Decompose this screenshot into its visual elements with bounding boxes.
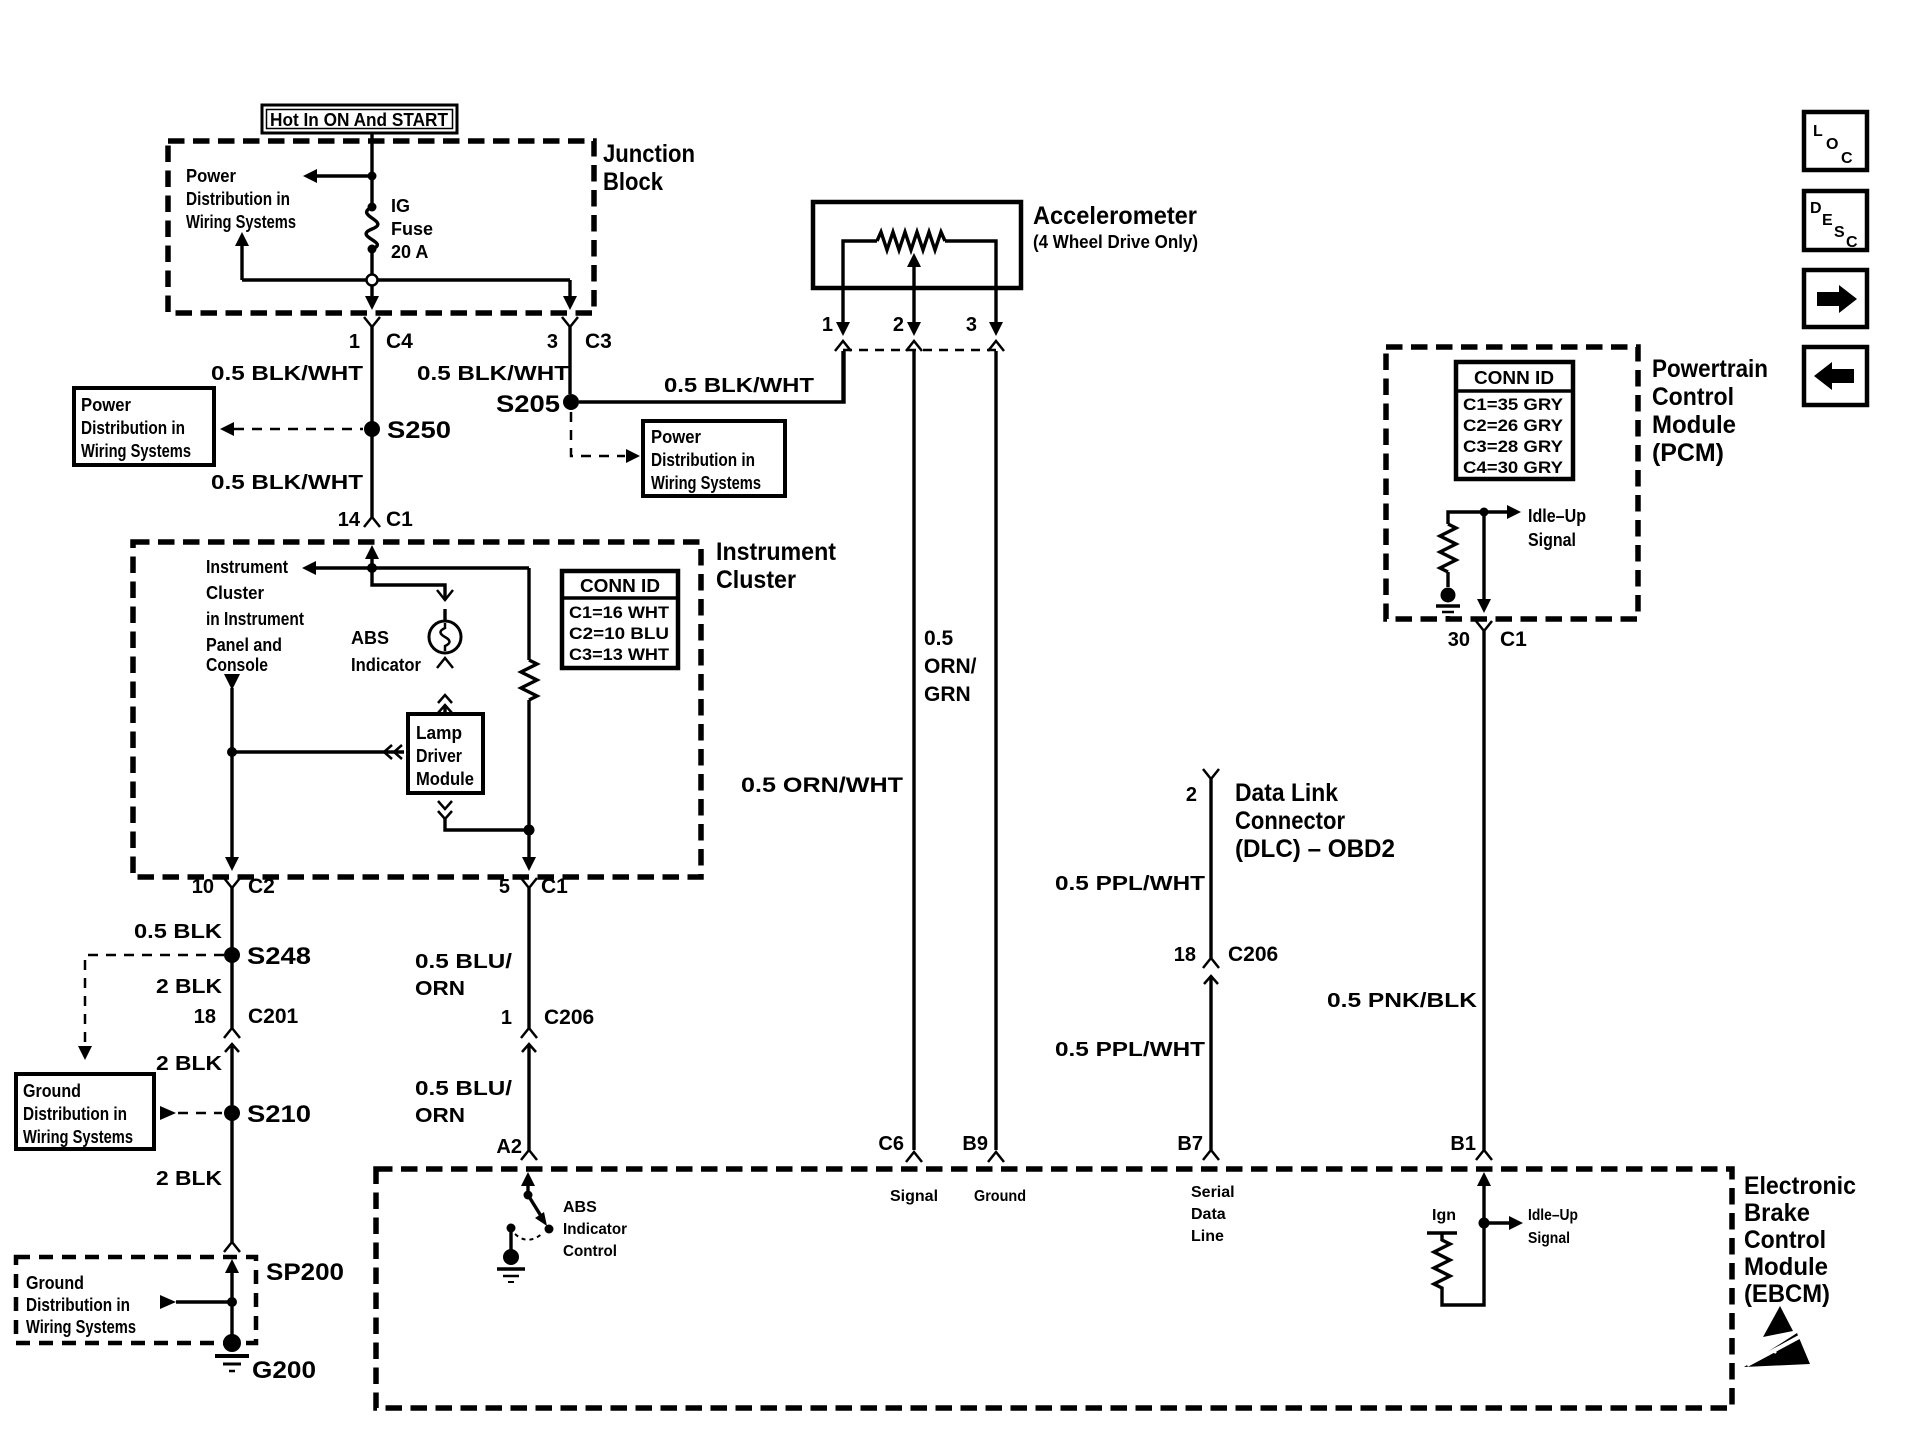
wire ground pin3 down to EBCM B9 <box>741 351 996 1150</box>
splice S205 <box>496 391 579 418</box>
svg-text:(DLC) – OBD2: (DLC) – OBD2 <box>1235 835 1395 863</box>
svg-text:1: 1 <box>349 331 360 353</box>
wire 0.5 PPL/WHT C206 to B7 <box>1055 1039 1205 1061</box>
svg-text:C206: C206 <box>1228 943 1278 966</box>
svg-text:Powertrain: Powertrain <box>1652 355 1768 383</box>
svg-text:ORN: ORN <box>415 978 465 1000</box>
svg-text:Power: Power <box>81 395 131 415</box>
svg-text:14: 14 <box>338 509 361 531</box>
svg-text:Wiring Systems: Wiring Systems <box>23 1127 133 1147</box>
svg-text:Cluster: Cluster <box>206 583 264 603</box>
accelerometer pin wires 1 2 3 <box>822 288 1003 336</box>
svg-text:Brake: Brake <box>1744 1199 1810 1227</box>
svg-text:Console: Console <box>206 655 268 675</box>
connector C201 pin 18 <box>194 1005 299 1105</box>
wire 2 BLK S210 to SP200 <box>156 1120 232 1242</box>
svg-text:Distribution in: Distribution in <box>651 450 755 470</box>
svg-text:Module: Module <box>416 769 474 789</box>
wire entering cluster from C1 <box>365 545 379 568</box>
label serial data line (B7) <box>1191 1184 1235 1245</box>
svg-text:Control: Control <box>1652 383 1734 411</box>
splice S210 <box>224 1101 311 1128</box>
svg-text:ABS: ABS <box>351 628 389 648</box>
junction block dashed box <box>168 140 695 313</box>
svg-text:Indicator: Indicator <box>563 1221 627 1238</box>
svg-text:0.5 BLK: 0.5 BLK <box>134 921 223 943</box>
ground ABS indicator control <box>497 1228 525 1282</box>
connector C2 pin 10 <box>192 875 275 948</box>
svg-text:Line: Line <box>1191 1228 1224 1245</box>
svg-text:30: 30 <box>1448 629 1470 651</box>
svg-text:B7: B7 <box>1177 1133 1203 1155</box>
button back (left arrow) <box>1804 347 1867 405</box>
potentiometer inside accelerometer <box>843 232 996 288</box>
svg-text:Distribution in: Distribution in <box>81 418 185 438</box>
node cluster feed junction <box>302 561 529 575</box>
ground inside PCM <box>1436 588 1460 618</box>
svg-text:Distribution in: Distribution in <box>26 1295 130 1315</box>
svg-text:0.5 ORN/WHT: 0.5 ORN/WHT <box>741 774 903 797</box>
connector C6 label and signal <box>878 1133 938 1205</box>
connector C3 pin 3 <box>547 317 612 353</box>
svg-text:(PCM): (PCM) <box>1652 439 1724 467</box>
svg-text:A2: A2 <box>496 1136 522 1158</box>
powertrain control module dashed box <box>1386 347 1768 619</box>
connector DLC pin 2 <box>1186 769 1219 958</box>
svg-text:C3: C3 <box>585 330 612 353</box>
svg-text:CONN ID: CONN ID <box>580 576 660 596</box>
svg-text:0.5 PPL/WHT: 0.5 PPL/WHT <box>1055 1039 1205 1061</box>
svg-text:0.5 BLK/WHT: 0.5 BLK/WHT <box>211 472 363 494</box>
connector chevrons into lamp driver module (left) <box>384 745 402 759</box>
button DESC <box>1804 191 1867 251</box>
svg-text:Idle–Up: Idle–Up <box>1528 506 1586 526</box>
svg-text:ORN/: ORN/ <box>924 655 977 678</box>
svg-text:Data: Data <box>1191 1206 1226 1223</box>
svg-text:G200: G200 <box>252 1357 316 1384</box>
svg-text:Driver: Driver <box>416 746 462 766</box>
svg-text:Ground: Ground <box>23 1081 81 1101</box>
conn id table (PCM) <box>1456 362 1573 479</box>
ground distribution dashed box <box>16 1257 256 1343</box>
wiper arrow inside accelerometer <box>907 253 921 288</box>
ESD symbol <box>1744 1306 1810 1367</box>
svg-text:0.5 BLU/: 0.5 BLU/ <box>415 951 513 973</box>
svg-text:(4 Wheel Drive Only): (4 Wheel Drive Only) <box>1033 232 1198 252</box>
svg-text:C2=26 GRY: C2=26 GRY <box>1463 416 1564 435</box>
svg-text:0.5 BLK/WHT: 0.5 BLK/WHT <box>417 363 569 385</box>
svg-text:Idle–Up: Idle–Up <box>1528 1207 1578 1224</box>
svg-text:S: S <box>1834 224 1845 241</box>
svg-text:Electronic: Electronic <box>1744 1172 1856 1200</box>
svg-text:B1: B1 <box>1450 1133 1476 1155</box>
button LOC <box>1804 112 1867 170</box>
svg-text:SP200: SP200 <box>266 1259 344 1286</box>
wire from Hot feed down into junction block <box>370 133 373 300</box>
connector C1 pin 14 (instrument cluster) <box>338 508 413 531</box>
resistor cluster pull-up <box>521 568 537 860</box>
svg-text:C4=30 GRY: C4=30 GRY <box>1463 458 1564 477</box>
svg-text:C201: C201 <box>248 1005 299 1028</box>
connector A2 (EBCM) <box>496 1136 537 1160</box>
svg-text:2 BLK: 2 BLK <box>156 976 223 998</box>
svg-text:0.5: 0.5 <box>924 627 954 650</box>
electronic brake control module dashed box <box>376 1169 1856 1408</box>
connector B9 label and ground <box>962 1133 1026 1205</box>
svg-text:Wiring Systems: Wiring Systems <box>186 212 296 232</box>
svg-text:Lamp: Lamp <box>416 723 462 743</box>
splice SP200 <box>224 1242 344 1286</box>
svg-text:Ground: Ground <box>974 1188 1026 1205</box>
conn id table (instrument cluster) <box>562 571 678 668</box>
label Power Distribution in Wiring Systems (left box) <box>74 388 214 465</box>
label Power Distribution in Wiring Systems (right box) <box>643 421 785 496</box>
svg-text:C: C <box>1841 150 1853 167</box>
label Power Distribution in Wiring Systems (junction block) <box>186 166 296 232</box>
node B1 junction <box>1479 1207 1579 1247</box>
label Instrument Cluster in Instrument Panel and Console <box>206 557 304 675</box>
wire 2 BLK C201 to S210 <box>156 1053 223 1075</box>
svg-text:0.5 BLK/WHT: 0.5 BLK/WHT <box>664 375 814 397</box>
svg-text:Cluster: Cluster <box>716 566 796 594</box>
lamp driver module box <box>408 714 483 793</box>
svg-text:Hot In ON And START: Hot In ON And START <box>270 110 448 130</box>
wire 0.5 BLU/ORN C1 to C206 <box>415 951 513 1000</box>
svg-text:Serial: Serial <box>1191 1184 1235 1201</box>
svg-text:0.5 BLK/WHT: 0.5 BLK/WHT <box>211 363 363 385</box>
wire PCM idle-up to pin 30 <box>1477 512 1491 613</box>
label Hot In ON And START <box>262 105 457 133</box>
wire 0.5 BLK C2 to S248 <box>134 921 223 943</box>
wire dashed S248 to ground distribution <box>78 955 224 1060</box>
connector C4 pin 1 <box>349 317 413 353</box>
connector below lamp <box>437 658 453 714</box>
svg-text:CONN ID: CONN ID <box>1474 368 1554 388</box>
svg-text:Indicator: Indicator <box>351 655 421 675</box>
svg-text:Wiring Systems: Wiring Systems <box>651 473 761 493</box>
wire dashed S205 to power distribution <box>571 412 640 463</box>
resistor Ign (EBCM) <box>1427 1207 1457 1298</box>
svg-text:2 BLK: 2 BLK <box>156 1053 223 1075</box>
svg-text:C: C <box>1846 234 1858 251</box>
wire fused output branch <box>235 232 570 300</box>
svg-text:0.5 PNK/BLK: 0.5 PNK/BLK <box>1327 990 1478 1012</box>
wire 2 BLK S248 to C201 <box>156 962 232 1028</box>
svg-text:Distribution in: Distribution in <box>23 1104 127 1124</box>
svg-text:Wiring Systems: Wiring Systems <box>26 1317 136 1337</box>
fuse IG Fuse 20 A <box>366 196 433 262</box>
svg-text:Power: Power <box>651 427 701 447</box>
svg-text:Accelerometer: Accelerometer <box>1033 202 1197 230</box>
svg-text:C1=16 WHT: C1=16 WHT <box>569 603 670 622</box>
splice S250 <box>364 417 451 444</box>
svg-text:Signal: Signal <box>890 1188 938 1205</box>
wire dashed ground distribution to S210 <box>160 1106 222 1120</box>
wire left cluster branch to C2 <box>224 674 240 871</box>
svg-text:2: 2 <box>893 314 904 336</box>
svg-text:ABS: ABS <box>563 1199 597 1216</box>
connector C206 pin 1 (cluster side) <box>501 1006 594 1150</box>
svg-text:Power: Power <box>186 166 236 186</box>
wire B1 idle-up inside EBCM <box>1442 1172 1491 1305</box>
accelerometer connector dashed line <box>835 341 1004 351</box>
svg-text:O: O <box>1826 136 1838 153</box>
svg-text:C206: C206 <box>544 1006 594 1029</box>
svg-text:S248: S248 <box>247 943 311 970</box>
lamp ABS indicator <box>351 621 461 675</box>
svg-text:5: 5 <box>499 876 510 898</box>
svg-text:20 A: 20 A <box>391 242 428 262</box>
svg-text:0.5 BLU/: 0.5 BLU/ <box>415 1078 513 1100</box>
svg-text:18: 18 <box>1174 944 1196 966</box>
resistor idle-up pull-up (PCM) <box>1440 512 1484 587</box>
wire down arrows to C4 and C3 <box>365 296 577 310</box>
svg-text:C2: C2 <box>248 875 275 898</box>
ground G200 <box>215 1334 316 1384</box>
wire accelerometer pin1 down to S205 wire <box>841 351 844 402</box>
svg-text:18: 18 <box>194 1006 216 1028</box>
svg-text:1: 1 <box>501 1007 512 1029</box>
svg-text:Panel and: Panel and <box>206 635 282 655</box>
svg-text:Instrument: Instrument <box>716 538 837 566</box>
wire dashed S250 to power distribution <box>220 422 363 436</box>
svg-text:3: 3 <box>966 314 977 336</box>
svg-text:Control: Control <box>1744 1226 1826 1254</box>
accelerometer box <box>813 202 1198 288</box>
svg-text:C6: C6 <box>878 1133 904 1155</box>
node lamp driver module feed <box>227 747 404 757</box>
svg-text:10: 10 <box>192 876 214 898</box>
svg-text:D: D <box>1810 200 1822 217</box>
svg-text:S205: S205 <box>496 391 560 418</box>
svg-text:Instrument: Instrument <box>206 557 288 577</box>
svg-text:Ign: Ign <box>1432 1207 1456 1224</box>
wire 0.5 BLK/WHT S205 to accelerometer pin 1 <box>579 351 844 402</box>
svg-text:2 BLK: 2 BLK <box>156 1168 223 1190</box>
svg-text:Ground: Ground <box>26 1273 84 1293</box>
svg-text:Fuse: Fuse <box>391 219 433 239</box>
instrument cluster dashed box <box>133 538 837 877</box>
svg-text:in Instrument: in Instrument <box>206 609 304 629</box>
switch ABS indicator control (EBCM) <box>507 1172 628 1260</box>
svg-text:Block: Block <box>603 168 663 196</box>
label Ground Distribution in Wiring Systems (solid box) <box>16 1074 154 1149</box>
svg-text:Signal: Signal <box>1528 1230 1570 1247</box>
svg-text:1: 1 <box>822 314 833 336</box>
svg-text:C1: C1 <box>386 508 413 531</box>
svg-text:L: L <box>1813 123 1823 140</box>
connector C206 pin 18 (DLC side) <box>1174 943 1278 1150</box>
svg-text:Wiring Systems: Wiring Systems <box>81 441 191 461</box>
svg-text:Connector: Connector <box>1235 807 1345 835</box>
svg-text:Control: Control <box>563 1243 617 1260</box>
svg-text:C1: C1 <box>1500 628 1527 651</box>
wire SP200 into ground box <box>225 1259 239 1338</box>
svg-text:C3=13 WHT: C3=13 WHT <box>569 645 670 664</box>
svg-text:(EBCM): (EBCM) <box>1744 1280 1830 1308</box>
svg-text:Module: Module <box>1652 411 1736 439</box>
connector C1 pin 30 (PCM) <box>1448 621 1527 1150</box>
label Data Link Connector (DLC) OBD2 <box>1235 779 1395 863</box>
svg-text:Distribution in: Distribution in <box>186 189 290 209</box>
svg-text:IG: IG <box>391 196 410 216</box>
svg-text:Data Link: Data Link <box>1235 779 1338 807</box>
wire lamp driver module output <box>438 801 529 830</box>
svg-text:Module: Module <box>1744 1253 1828 1281</box>
wire 0.5 PPL/WHT DLC to C206 <box>1055 873 1205 895</box>
splice S248 <box>224 943 311 970</box>
svg-text:C2=10 BLU: C2=10 BLU <box>569 624 669 643</box>
svg-text:3: 3 <box>547 331 558 353</box>
node resistor lamp junction <box>522 825 536 872</box>
svg-text:C4: C4 <box>386 330 413 353</box>
button next (right arrow) <box>1804 270 1867 327</box>
node power distribution branch <box>303 169 377 183</box>
wire ground distribution branch <box>160 1295 237 1309</box>
wire 0.5 BLK/WHT C3 to S205 <box>417 327 570 394</box>
svg-text:C1: C1 <box>541 875 568 898</box>
node idle-up signal junction (PCM) <box>1480 505 1587 550</box>
wire ABS indicator branch <box>372 568 453 621</box>
connector C1 pin 5 <box>499 875 568 1028</box>
wire 0.5 PNK/BLK PCM to B1 <box>1327 990 1478 1012</box>
svg-text:2: 2 <box>1186 784 1197 806</box>
wire signal 0.5 ORN/GRN pin2 down to EBCM C6 <box>914 351 977 1150</box>
node crossover circle <box>367 275 378 286</box>
svg-text:B9: B9 <box>962 1133 988 1155</box>
wire 0.5 BLK/WHT C4 to S250 to C1 <box>211 327 372 517</box>
svg-text:ORN: ORN <box>415 1105 465 1127</box>
svg-text:C1=35 GRY: C1=35 GRY <box>1463 395 1564 414</box>
svg-text:S210: S210 <box>247 1101 311 1128</box>
svg-text:C3=28 GRY: C3=28 GRY <box>1463 437 1564 456</box>
svg-text:GRN: GRN <box>924 683 971 706</box>
connector B7 (EBCM) <box>1177 1133 1219 1160</box>
connector B1 (EBCM) <box>1450 1133 1492 1160</box>
svg-text:S250: S250 <box>387 417 451 444</box>
svg-text:Junction: Junction <box>603 140 695 168</box>
wire 0.5 BLU/ORN C206 to A2 <box>415 1078 513 1127</box>
svg-text:Signal: Signal <box>1528 530 1576 550</box>
svg-text:0.5 PPL/WHT: 0.5 PPL/WHT <box>1055 873 1205 895</box>
svg-text:E: E <box>1822 212 1833 229</box>
